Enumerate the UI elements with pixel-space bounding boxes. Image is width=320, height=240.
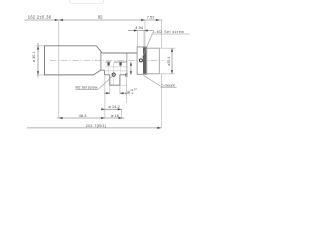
dimension dia30.1 line <box>37 43 39 78</box>
wire extension x104.9 down <box>104 75 106 118</box>
dimension 35 vertical <box>130 62 132 75</box>
wire extension 4.54 a <box>137 31 139 47</box>
node arrow dia30.1 bottom <box>37 71 39 75</box>
step vertical <box>103 70 105 75</box>
flange set screw circle <box>139 59 142 62</box>
label dia8 with tolerance <box>124 87 138 97</box>
screw hole axis right <box>120 62 122 74</box>
protrusion block <box>110 75 120 85</box>
node arrow 4.54 left <box>134 29 138 31</box>
C-mount box <box>147 48 160 74</box>
flange box <box>137 47 147 74</box>
wire 4.54 dimension line <box>128 30 153 32</box>
overall dimension line 201.7 <box>27 127 161 129</box>
svg-text:ø 14.2: ø 14.2 <box>108 104 120 109</box>
screw axis vertical <box>113 62 115 85</box>
node arrow 48.3 right <box>101 117 105 119</box>
svg-text:C-mount: C-mount <box>161 83 175 87</box>
set screw circle <box>112 73 115 76</box>
node arrow 35 bottom <box>130 71 132 75</box>
node arrow at 159.5 <box>156 19 160 21</box>
node arrow dia14.2 right <box>118 108 122 110</box>
inner bottom ext y85.2 <box>120 84 127 86</box>
center line <box>50 60 164 62</box>
wire extension x126.6 down <box>126 75 128 103</box>
wire extension dia25.4 ticks <box>160 48 175 74</box>
label C-mount underline <box>161 86 177 88</box>
node arrow pair at 58.8 <box>55 19 59 21</box>
svg-text:ø 30.1: ø 30.1 <box>32 51 36 62</box>
screw square left <box>107 62 109 65</box>
node arrow 201.7 right <box>157 127 161 129</box>
label M2 underline <box>76 88 99 90</box>
svg-text:82: 82 <box>98 15 103 20</box>
slot line <box>105 61 127 63</box>
svg-text:201.7(B/1): 201.7(B/1) <box>86 123 107 128</box>
slot inner line <box>105 66 127 68</box>
node arrow dia8 right <box>120 92 124 94</box>
barrel cone top <box>96 46 102 53</box>
cone end vertical <box>100 52 102 70</box>
node arrow 48.3 left <box>59 117 63 119</box>
node arrow dia25.4 bottom <box>171 70 173 74</box>
wire extension front plane x58.8 <box>58 20 60 118</box>
wire extension 4.54 b <box>143 31 145 47</box>
wire extension flange front x145 <box>144 20 146 47</box>
lens barrel outline <box>45 46 97 75</box>
wire extension rear x161.3 top <box>160 20 162 48</box>
faint tooltip remnant box top <box>70 0 104 4</box>
wire extension rear x161.3 bottom <box>160 74 162 128</box>
leader M2 <box>98 77 112 90</box>
neck bottom edge <box>104 74 127 76</box>
wire extension dia14.2 right <box>120 109 122 118</box>
node arrow 4.54 right <box>144 29 148 31</box>
node arrow 35 top <box>130 62 132 66</box>
label 3-M2 underline <box>152 33 189 35</box>
step bottom <box>101 69 105 71</box>
node arrow dia25.4 top <box>171 48 173 52</box>
node arrow dia30.1 top <box>37 46 39 50</box>
svg-text:48.3: 48.3 <box>79 113 88 118</box>
neck top edge <box>102 52 137 54</box>
inner line y70.9 <box>105 70 126 72</box>
dimension dia25.4 line <box>171 48 173 74</box>
leader C-mount <box>144 75 161 86</box>
svg-text:162.2±0.38: 162.2±0.38 <box>28 15 52 20</box>
leader 3-M2 <box>142 33 153 59</box>
flange dark band <box>143 47 146 73</box>
barrel cone bottom <box>93 70 101 75</box>
node arrow 16 right <box>119 117 123 119</box>
node arrow dia8 left <box>106 92 110 94</box>
wire top dimension line <box>25 19 163 21</box>
chain dimension line 48.3 / 16 <box>57 117 124 119</box>
screw hole axis left <box>108 62 110 74</box>
svg-text:4.54: 4.54 <box>135 25 144 30</box>
node arrow dia14.2 left <box>101 108 105 110</box>
wire extension dia30.1 ticks <box>37 46 45 75</box>
svg-text:ø 16: ø 16 <box>111 113 119 118</box>
node arrow at 145 <box>141 19 145 21</box>
svg-text:3-M2 Set screw: 3-M2 Set screw <box>152 30 184 34</box>
screw square right <box>119 62 121 65</box>
dimension dia14.2 line <box>101 108 122 110</box>
svg-text:7.52: 7.52 <box>147 15 156 20</box>
svg-text:ø25.4: ø25.4 <box>167 57 171 66</box>
wire extension dia8 sides <box>110 85 120 94</box>
dimension dia8 line stubs <box>104 92 126 94</box>
collar left edge <box>126 53 128 75</box>
